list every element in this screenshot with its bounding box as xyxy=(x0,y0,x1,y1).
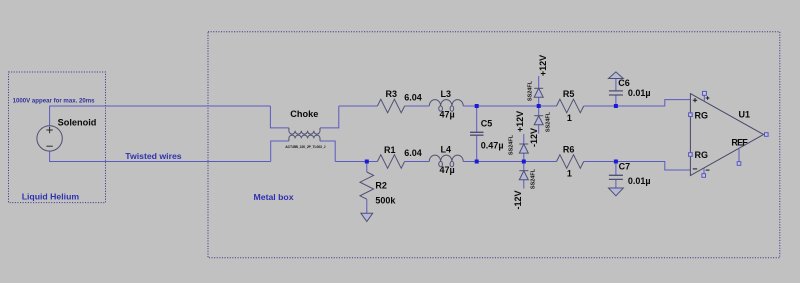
svg-text:+12V: +12V xyxy=(538,55,548,76)
svg-text:-12V: -12V xyxy=(513,190,523,209)
node: C5 bottom junction xyxy=(475,160,479,164)
svg-text:R5: R5 xyxy=(563,89,575,99)
capacitor C5 xyxy=(470,106,484,162)
wire: L3 to R5 through clamp node xyxy=(463,105,556,107)
svg-text:R6: R6 xyxy=(563,145,575,155)
svg-text:47µ: 47µ xyxy=(440,165,455,175)
pin: output xyxy=(765,133,769,137)
ground above C6 xyxy=(609,72,624,79)
svg-text:Twisted wires: Twisted wires xyxy=(125,151,181,161)
svg-text:SS24FL: SS24FL xyxy=(528,80,534,101)
svg-text:R3: R3 xyxy=(386,89,398,99)
node: C7 junction xyxy=(614,160,618,164)
pin: RG lower xyxy=(689,153,693,157)
wire: solenoid bottom lead to choke (bottom row, twisted pair) xyxy=(50,151,271,161)
wire: R2 leads xyxy=(366,162,368,214)
svg-text:RG: RG xyxy=(695,110,709,120)
capacitor C6 (to ground above) xyxy=(609,79,623,107)
svg-text:L4: L4 xyxy=(441,144,452,154)
svg-text:R1: R1 xyxy=(384,145,396,155)
choke top winding leads (wire) xyxy=(270,106,338,128)
svg-text:Choke: Choke xyxy=(290,109,318,119)
choke top winding coil xyxy=(289,128,320,134)
svg-text:U1: U1 xyxy=(739,110,751,120)
diode D3 SS24FL (bottom row, clamp to +12V) xyxy=(519,134,528,162)
diode D1 SS24FL (top row, clamp to +12V) xyxy=(534,76,543,106)
svg-text:0.47µ: 0.47µ xyxy=(481,141,504,151)
wire: R5 to op-amp + input xyxy=(584,100,691,106)
choke bottom winding leads (wire) xyxy=(271,141,336,162)
svg-text:-12V: -12V xyxy=(529,128,539,147)
svg-text:C5: C5 xyxy=(481,119,493,129)
svg-text:C7: C7 xyxy=(619,162,631,172)
wire: choke to R1 through R2 node xyxy=(335,161,377,163)
node: C5 top junction xyxy=(475,104,479,108)
svg-text:Liquid Helium: Liquid Helium xyxy=(22,191,80,201)
pin: V- supply xyxy=(702,168,710,177)
svg-text:1000V appear for max. 20ms: 1000V appear for max. 20ms xyxy=(13,98,96,105)
svg-text:REF: REF xyxy=(731,137,748,147)
resistor R6 xyxy=(557,155,584,169)
resistor R1 xyxy=(377,155,404,169)
svg-text:L3: L3 xyxy=(441,89,452,99)
svg-text:Solenoid: Solenoid xyxy=(58,118,97,128)
ground below R2 xyxy=(361,213,373,221)
svg-text:+12V: +12V xyxy=(515,111,525,132)
svg-text:0.01µ: 0.01µ xyxy=(628,88,651,98)
svg-text:47µ: 47µ xyxy=(440,109,455,119)
svg-text:RG: RG xyxy=(695,150,709,160)
node: bottom clamp junction xyxy=(522,160,526,164)
svg-text:R2: R2 xyxy=(375,180,387,190)
svg-text:ACT45B_220_2P_TL003_J: ACT45B_220_2P_TL003_J xyxy=(285,145,325,149)
svg-text:SS24FL: SS24FL xyxy=(530,168,536,189)
svg-text:Metal box: Metal box xyxy=(254,192,294,202)
diode D4 SS24FL (bottom row, clamp to -12V) xyxy=(519,162,528,189)
U1 - input mark xyxy=(693,168,697,170)
wire: R3 to L3 xyxy=(405,105,430,107)
pin: V+ supply xyxy=(703,91,710,101)
svg-text:6.04: 6.04 xyxy=(404,148,422,158)
pin: REF xyxy=(737,149,741,166)
wire: choke to R3 xyxy=(339,105,378,107)
Liquid Helium enclosure (dashed box) xyxy=(9,72,106,203)
Metal box enclosure (dashed box) xyxy=(208,32,780,258)
ground below C7 xyxy=(609,188,624,196)
wire: solenoid top lead to choke (top row) xyxy=(50,106,271,126)
node: C6 junction xyxy=(614,104,618,108)
svg-text:SS24FL: SS24FL xyxy=(545,111,551,132)
U1 + input mark xyxy=(693,98,697,102)
wire: L4 to R6 through clamp node xyxy=(463,161,556,163)
svg-text:1: 1 xyxy=(567,169,572,179)
svg-text:500k: 500k xyxy=(375,196,396,206)
diode D2 SS24FL (top row, clamp to -12V) xyxy=(534,106,543,134)
resistor R2 (to ground) xyxy=(360,172,374,199)
choke bottom winding coil xyxy=(289,135,320,141)
wire: R6 to op-amp - input xyxy=(584,162,691,171)
svg-text:SS24FL: SS24FL xyxy=(509,134,515,155)
instrumentation amplifier U1 body xyxy=(690,94,763,176)
inductor L4 xyxy=(429,155,463,167)
svg-text:6.04: 6.04 xyxy=(404,93,422,103)
voltage source VS1 (Solenoid) xyxy=(37,126,62,151)
pin: RG upper xyxy=(689,113,693,117)
svg-text:1: 1 xyxy=(567,113,572,123)
node: top clamp junction xyxy=(537,104,541,108)
wire: R1 to L4 xyxy=(405,161,430,163)
inductor L3 xyxy=(429,100,463,112)
resistor R3 xyxy=(377,99,404,113)
resistor R5 xyxy=(557,99,584,113)
node: R2 junction xyxy=(365,160,369,164)
svg-text:C6: C6 xyxy=(618,78,630,88)
svg-text:0.01µ: 0.01µ xyxy=(628,176,651,186)
capacitor C7 (to ground below) xyxy=(609,162,623,189)
